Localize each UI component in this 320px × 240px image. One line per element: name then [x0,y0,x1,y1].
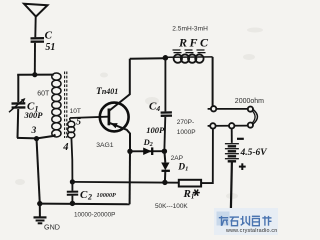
wire tank bottom to ground rail [37,139,40,204]
scan noise smudges [15,28,263,200]
emitter lead [109,123,130,152]
collector lead [109,59,130,111]
node dot D2 left / emitter [127,149,132,154]
battery minus sign [237,138,244,140]
ground rail [40,203,130,206]
wire emitter node to ground corner [129,151,131,204]
svg-text:2AP: 2AP [171,155,184,162]
antenna [24,4,48,17]
capacitor C4 [161,112,172,115]
transistor Q1 [100,103,129,132]
terminal circle bottom-left [210,123,215,128]
svg-text:5: 5 [76,118,81,128]
watermark [214,208,278,235]
variable capacitor C1 300P [12,103,26,107]
battery B1 [225,144,239,162]
node dot tank bottom [34,136,39,141]
svg-text:RFC: RFC [178,36,211,50]
node dot D1 bottom [162,180,167,185]
capacitor C 51 [31,38,45,42]
svg-text:C: C [80,189,88,201]
terminal circle bottom-right [248,123,253,128]
earphone arcs [253,109,258,124]
svg-text:50K---100K: 50K---100K [155,203,188,210]
node dot C2 ground [70,201,75,206]
svg-text:2: 2 [87,193,92,202]
terminal circle bottom-mid [229,123,234,128]
wire secondary bottom to emitter rail [71,138,72,180]
svg-text:www.crystalradio.cn: www.crystalradio.cn [225,228,277,234]
wire tank bottom rail [17,135,56,139]
svg-text:10000-20000P: 10000-20000P [74,212,115,219]
R1 star mark [193,190,200,196]
svg-text:C: C [45,30,53,42]
wire jack to battery [231,129,233,143]
RFC core dashes [173,50,207,53]
svg-text:100P: 100P [146,125,165,135]
transformer core [65,72,67,139]
svg-text:4: 4 [62,142,68,153]
svg-text:4.5-6V: 4.5-6V [240,148,268,158]
wire RFC right down [212,57,214,106]
svg-text:1000P: 1000P [177,129,196,136]
wire battery minus down [231,161,232,214]
svg-text:270P-: 270P- [177,119,194,126]
svg-text:2000ohm: 2000ohm [235,98,264,105]
terminal circle top-left [211,106,216,111]
node dot D2 right [162,149,167,154]
diode D2 [130,150,164,152]
emitter arrow (PNP) [111,123,118,128]
svg-text:10T: 10T [70,108,81,115]
svg-text:2.5mH-3mH: 2.5mH-3mH [172,26,208,33]
battery plus sign [239,163,246,170]
wire collector to RFC node [130,57,164,60]
phone jack top rail [208,108,249,110]
wire tank left bottom [17,109,20,138]
transformer T1 primary 60T [52,73,61,137]
svg-text:300P: 300P [24,110,44,120]
node A junction dot [32,72,37,77]
wire antenna to C [34,17,36,38]
svg-text:10000P: 10000P [97,192,116,199]
svg-text:51: 51 [45,42,55,53]
ground symbol [34,204,47,224]
resistor R1 [179,180,201,187]
wire emitter rail [72,181,178,184]
phone jack bottom rail [208,125,248,127]
svg-text:60T: 60T [37,91,50,98]
diode D1 [163,151,166,162]
wire tank left top [17,75,19,103]
node dot ground left [37,201,42,206]
wire base lead [70,117,108,118]
svg-text:3AG1: 3AG1 [96,142,114,149]
wire C to node A [34,43,36,75]
wire jack to R1 [201,129,213,184]
svg-text:Tп401: Tп401 [96,87,118,97]
svg-text:3: 3 [31,126,37,136]
inductor RFC [168,56,213,58]
capacitor C2 [71,182,73,191]
terminal circle top-right [248,107,253,112]
transformer secondary 10T [68,118,75,138]
wire tank top rail [17,74,54,76]
node dot RFC left [163,55,169,61]
capacitor C4 branch wire [164,59,166,111]
node dot pin4 rail [70,179,75,184]
svg-text:GND: GND [44,223,60,232]
